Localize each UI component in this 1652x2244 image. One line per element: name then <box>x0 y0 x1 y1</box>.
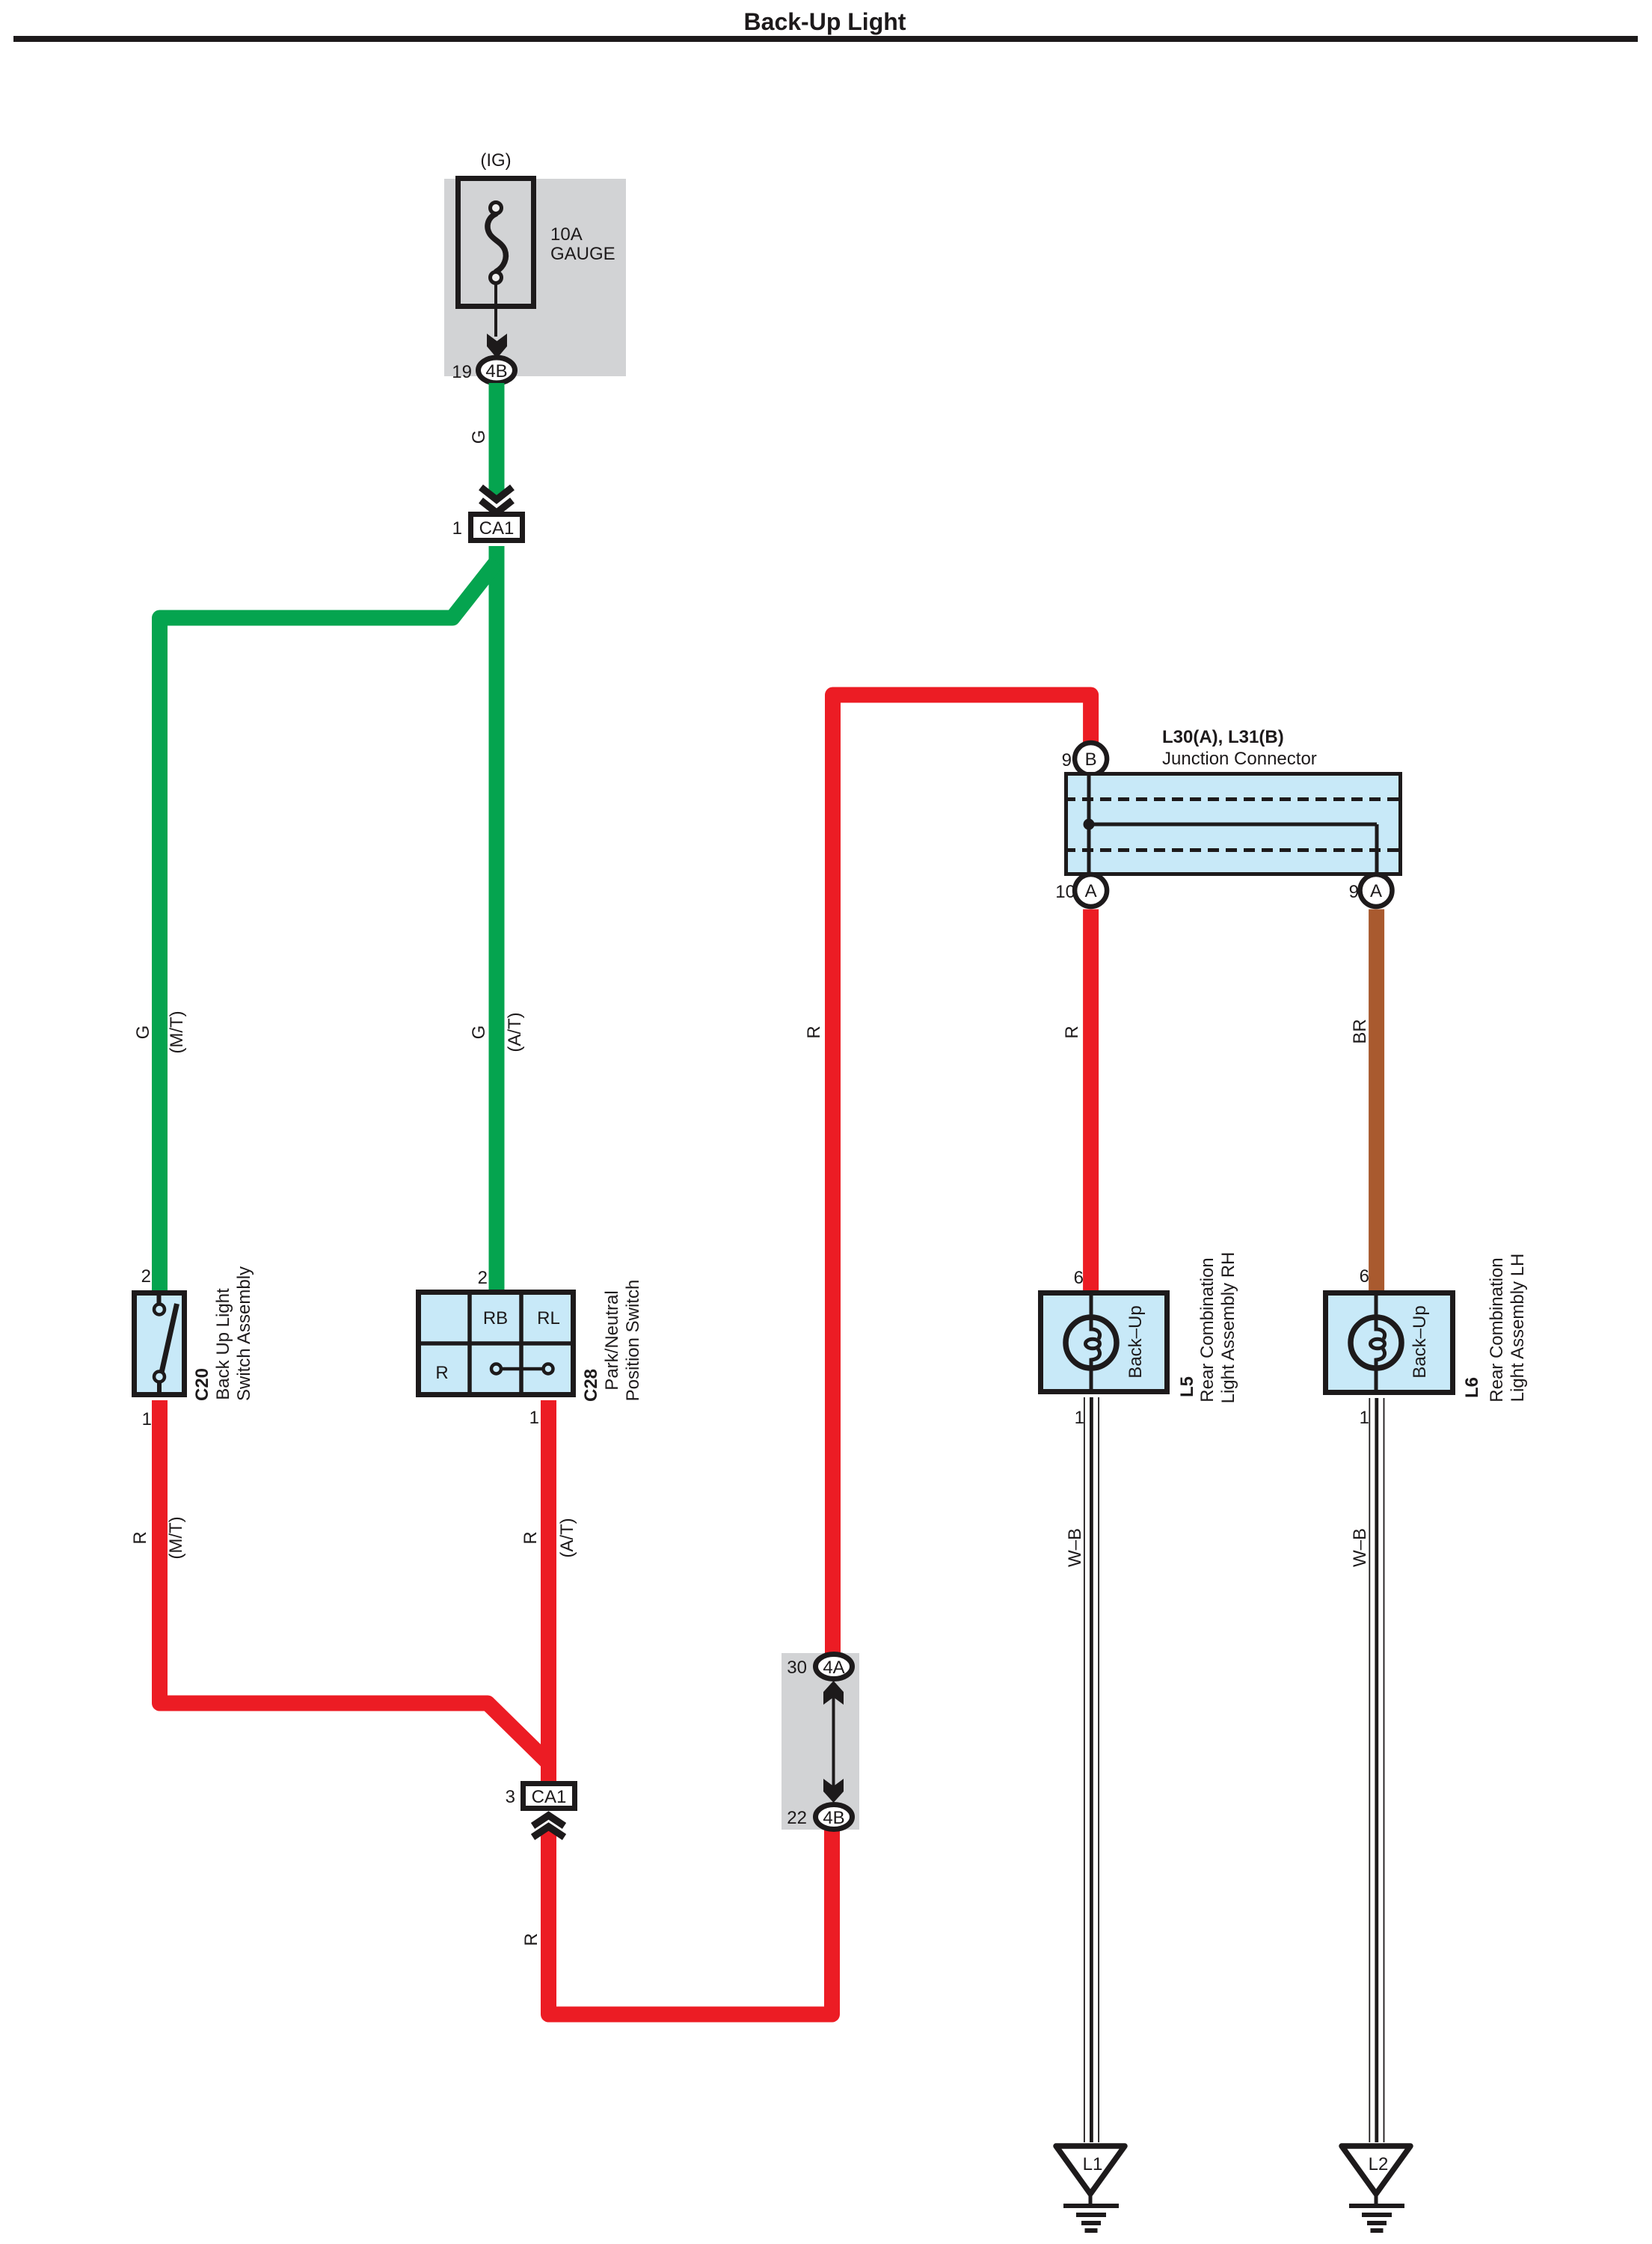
ground L1 <box>1056 2146 1125 2231</box>
svg-text:4B: 4B <box>485 361 507 381</box>
svg-text:1: 1 <box>452 518 462 539</box>
svg-text:4A: 4A <box>823 1658 844 1678</box>
wire R from 4A to junction connector pin B <box>833 695 1091 1655</box>
svg-text:L2: L2 <box>1369 2154 1389 2174</box>
wire G from 4B to CA1 <box>489 383 505 498</box>
switch contacts C20 <box>154 1290 177 1397</box>
connector 4B oval lower <box>816 1805 853 1830</box>
lamp L5 bulb <box>1066 1290 1117 1394</box>
svg-text:A: A <box>1370 881 1382 901</box>
ground L2 <box>1342 2146 1410 2231</box>
svg-text:6: 6 <box>1360 1266 1369 1287</box>
svg-text:L30(A), L31(B): L30(A), L31(B) <box>1162 727 1284 747</box>
svg-text:19: 19 <box>452 362 472 382</box>
svg-text:W–B: W–B <box>1065 1528 1085 1567</box>
switch C28 box <box>416 1290 576 1397</box>
svg-text:A: A <box>1085 881 1097 901</box>
connector chevrons into CA1 <box>481 488 512 513</box>
svg-text:22: 22 <box>787 1808 807 1828</box>
junction connector L30 L31 <box>1064 772 1402 876</box>
svg-text:2: 2 <box>478 1268 488 1288</box>
svg-text:RL: RL <box>537 1308 560 1328</box>
svg-text:Rear Combination: Rear Combination <box>1487 1257 1507 1402</box>
splice arrow <box>832 1695 835 1788</box>
svg-text:(M/T): (M/T) <box>166 1516 186 1559</box>
svg-text:R: R <box>521 1933 541 1946</box>
svg-text:W–B: W–B <box>1350 1528 1370 1567</box>
wire R A/T from C28 to CA1 <box>541 1400 556 1781</box>
svg-text:(M/T): (M/T) <box>167 1011 187 1053</box>
svg-text:CA1: CA1 <box>479 518 515 539</box>
svg-text:(A/T): (A/T) <box>505 1012 525 1052</box>
svg-text:R: R <box>435 1363 448 1383</box>
svg-text:GAUGE: GAUGE <box>550 244 615 264</box>
svg-text:R: R <box>521 1531 541 1544</box>
switch C20 box <box>135 1293 185 1395</box>
svg-text:L1: L1 <box>1083 2154 1103 2174</box>
wire G M/T branch to C20 <box>160 562 497 1291</box>
svg-text:R: R <box>130 1531 150 1544</box>
wire R junction to L5 <box>1083 910 1099 1291</box>
svg-text:9: 9 <box>1062 750 1072 770</box>
header rule <box>13 36 1638 42</box>
connector chevrons below CA1 <box>533 1815 565 1837</box>
svg-text:9: 9 <box>1349 882 1359 902</box>
svg-text:Light Assembly LH: Light Assembly LH <box>1508 1254 1528 1402</box>
svg-text:Position Switch: Position Switch <box>623 1280 643 1402</box>
svg-text:1: 1 <box>142 1409 152 1429</box>
svg-text:L6: L6 <box>1462 1377 1482 1398</box>
svg-text:C28: C28 <box>581 1369 601 1402</box>
connector 4A oval <box>816 1655 853 1679</box>
svg-text:1: 1 <box>1360 1408 1369 1428</box>
svg-text:Park/Neutral: Park/Neutral <box>602 1290 622 1390</box>
wire W-B L6 <box>1369 1398 1384 2142</box>
fuse 10A GAUGE box <box>458 179 534 307</box>
fuse element <box>488 203 506 283</box>
svg-text:Rear Combination: Rear Combination <box>1197 1257 1217 1402</box>
svg-text:4B: 4B <box>823 1808 844 1828</box>
svg-text:Back–Up: Back–Up <box>1126 1305 1146 1378</box>
svg-text:6: 6 <box>1074 1268 1084 1288</box>
connector 4B oval <box>479 358 515 383</box>
wire R M/T from C20 to CA1 <box>160 1400 549 1763</box>
svg-text:BR: BR <box>1350 1019 1370 1043</box>
svg-text:B: B <box>1085 749 1097 770</box>
wire BR junction to L6 <box>1369 910 1384 1291</box>
wire W-B L5 <box>1084 1397 1099 2142</box>
lamp L6 box <box>1326 1293 1453 1393</box>
svg-text:CA1: CA1 <box>532 1787 567 1807</box>
wire G A/T vertical CA1 to C28 <box>489 546 505 1290</box>
svg-text:Junction Connector: Junction Connector <box>1162 749 1317 769</box>
splice block background <box>782 1653 859 1830</box>
svg-text:G: G <box>469 1026 489 1040</box>
lamp L5 box <box>1041 1293 1167 1392</box>
svg-text:2: 2 <box>141 1266 151 1287</box>
arrow from fuse to connector 4B <box>494 283 497 337</box>
svg-text:Back–Up: Back–Up <box>1410 1305 1430 1378</box>
svg-text:10A: 10A <box>550 224 583 245</box>
svg-text:R: R <box>1062 1026 1082 1038</box>
svg-text:1: 1 <box>1075 1408 1084 1428</box>
wire R from CA1 to splice 4B <box>549 1829 832 2014</box>
svg-text:1: 1 <box>529 1408 539 1428</box>
svg-text:L5: L5 <box>1177 1376 1197 1397</box>
lamp L6 bulb <box>1351 1290 1401 1395</box>
svg-text:30: 30 <box>787 1658 807 1678</box>
svg-text:RB: RB <box>483 1308 508 1328</box>
svg-text:Back Up Light: Back Up Light <box>213 1288 233 1400</box>
fuse block background <box>444 179 626 376</box>
svg-text:3: 3 <box>506 1787 515 1807</box>
svg-text:C20: C20 <box>192 1368 212 1401</box>
svg-text:R: R <box>804 1026 824 1038</box>
svg-text:(A/T): (A/T) <box>557 1518 577 1557</box>
svg-text:Light Assembly RH: Light Assembly RH <box>1218 1252 1238 1404</box>
svg-text:(IG): (IG) <box>480 150 511 171</box>
svg-text:G: G <box>469 430 489 444</box>
svg-text:Switch Assembly: Switch Assembly <box>234 1266 254 1401</box>
svg-text:Back-Up Light: Back-Up Light <box>744 8 906 35</box>
svg-text:G: G <box>133 1026 153 1040</box>
